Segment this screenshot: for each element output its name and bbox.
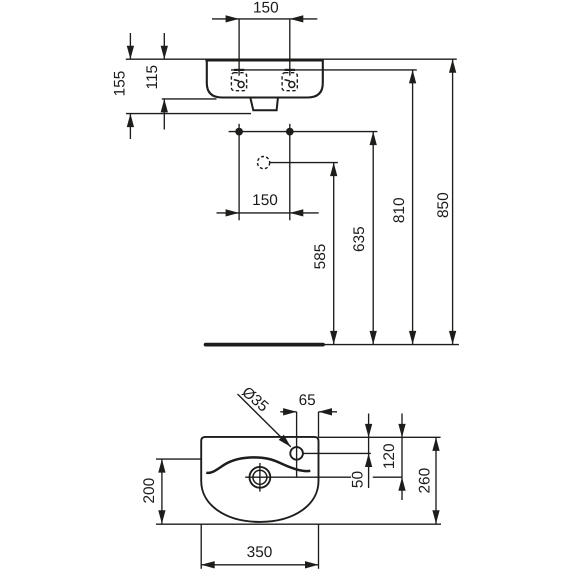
arrow 155 down xyxy=(127,46,134,60)
basin plan inner wave line xyxy=(206,457,310,473)
svg-text:115: 115 xyxy=(144,65,161,90)
svg-text:150: 150 xyxy=(252,192,278,209)
dimension 260 line xyxy=(435,437,437,523)
dimension 350 extension right xyxy=(318,524,320,569)
arrow 850 top xyxy=(449,59,456,72)
arrow 585 bottom xyxy=(330,331,337,345)
arrow 65 right xyxy=(319,408,333,415)
arrow 150mid right xyxy=(290,209,304,216)
tap hole level line plan xyxy=(303,452,371,454)
svg-text:65: 65 xyxy=(299,392,316,409)
fixing hole dot right xyxy=(286,128,294,136)
extension basin right edge vertical xyxy=(318,412,320,437)
svg-text:260: 260 xyxy=(416,468,433,494)
basin plan view outline xyxy=(201,437,318,522)
arrow 850 bottom xyxy=(449,331,456,345)
dimension 50 line xyxy=(368,414,370,454)
drain plan inner circle xyxy=(253,470,267,484)
dimension 155 line xyxy=(129,33,131,59)
fixing hole right stub xyxy=(289,124,291,221)
drain cross vertical xyxy=(259,463,261,492)
floor line thin xyxy=(323,344,459,346)
dimension 150 top line xyxy=(212,18,317,20)
drain trap front view xyxy=(250,98,278,110)
extension line drain bottom (155) xyxy=(126,113,251,115)
dashed hole reference line (585) xyxy=(270,162,338,164)
tap hole plan circle xyxy=(290,447,303,460)
plan top edge extension line xyxy=(319,436,441,438)
drain plan outer circle xyxy=(250,467,271,488)
svg-text:Ø35: Ø35 xyxy=(238,384,271,416)
wall fixing holes reference line xyxy=(229,131,378,133)
arrow 200 bottom xyxy=(158,510,165,524)
tap cross tick right xyxy=(285,69,295,71)
tap hole level reference line (810) xyxy=(231,69,417,71)
dimension 115 line xyxy=(163,33,165,59)
tap hole dashed square left xyxy=(231,73,246,91)
basin front rim top edge (thick) xyxy=(205,58,323,61)
arrow 635 bottom xyxy=(370,331,377,345)
dimension 585 line xyxy=(333,163,335,345)
svg-text:155: 155 xyxy=(112,71,129,97)
dimension 120 line xyxy=(401,414,403,478)
arrow leader d35 xyxy=(279,435,291,447)
svg-text:810: 810 xyxy=(391,197,408,223)
rim level extension line left xyxy=(126,58,207,60)
fixing hole dot left xyxy=(235,128,243,136)
svg-text:585: 585 xyxy=(312,244,329,270)
tap cross tick left xyxy=(234,69,244,71)
svg-text:50: 50 xyxy=(350,471,367,488)
svg-text:635: 635 xyxy=(351,226,368,252)
dimension 350 line xyxy=(201,564,318,566)
dimension 200 top extension xyxy=(156,458,201,460)
arrow 260 top xyxy=(432,437,439,451)
leader line for diameter 35 xyxy=(238,394,291,447)
dimension 200 line xyxy=(161,459,163,524)
arrow 635 top xyxy=(370,132,377,146)
arrow 115 up xyxy=(161,99,168,113)
arrow 150mid left xyxy=(226,209,240,216)
extension line basin bottom (115) xyxy=(162,98,217,100)
dimension 850 line xyxy=(452,59,454,344)
basin front view outline xyxy=(207,59,323,98)
dimension 150 middle line xyxy=(217,212,319,214)
arrow 260 bottom xyxy=(432,510,439,524)
arrow 115 down xyxy=(161,46,168,60)
arrow 120 up xyxy=(398,477,405,491)
svg-text:350: 350 xyxy=(247,544,273,561)
arrow 150top left xyxy=(226,15,240,22)
arrow 155 up xyxy=(127,114,134,128)
arrow 810 top xyxy=(409,70,416,84)
tap hole dashed square right xyxy=(282,73,297,91)
svg-text:150: 150 xyxy=(253,0,279,16)
tap hole glyph left xyxy=(234,80,244,88)
drain reference line left part xyxy=(245,476,351,478)
arrow 120 down xyxy=(398,424,405,438)
dimension 810 line xyxy=(412,70,414,345)
arrow 50 up xyxy=(365,454,372,468)
floor line thick xyxy=(206,343,323,347)
dimension 635 line xyxy=(372,132,374,345)
svg-text:200: 200 xyxy=(141,478,158,504)
svg-text:850: 850 xyxy=(435,192,452,218)
arrow 200 top xyxy=(158,459,165,473)
drain reference line right part xyxy=(373,476,402,478)
plan bottom tangent line xyxy=(156,523,441,525)
arrow 810 bottom xyxy=(409,331,416,345)
extension tap centre vertical xyxy=(296,412,298,477)
arrow 65 left xyxy=(283,408,297,415)
arrow 585 top xyxy=(330,163,337,177)
svg-text:120: 120 xyxy=(381,443,398,469)
arrow 350 left xyxy=(201,561,215,568)
dimension 65 line xyxy=(280,411,296,413)
tap hole glyph right xyxy=(285,80,295,88)
fixing hole left stub xyxy=(238,124,240,221)
dimension 150 top extension line left xyxy=(238,19,240,76)
arrow 50 down xyxy=(365,424,372,438)
dimension 350 extension left xyxy=(200,524,202,569)
arrow 150top right xyxy=(290,15,304,22)
rim level extension line right (850) xyxy=(323,58,457,60)
dashed hole circle xyxy=(258,157,270,169)
dimension 150 top extension line right xyxy=(289,19,291,76)
arrow 350 right xyxy=(305,561,319,568)
